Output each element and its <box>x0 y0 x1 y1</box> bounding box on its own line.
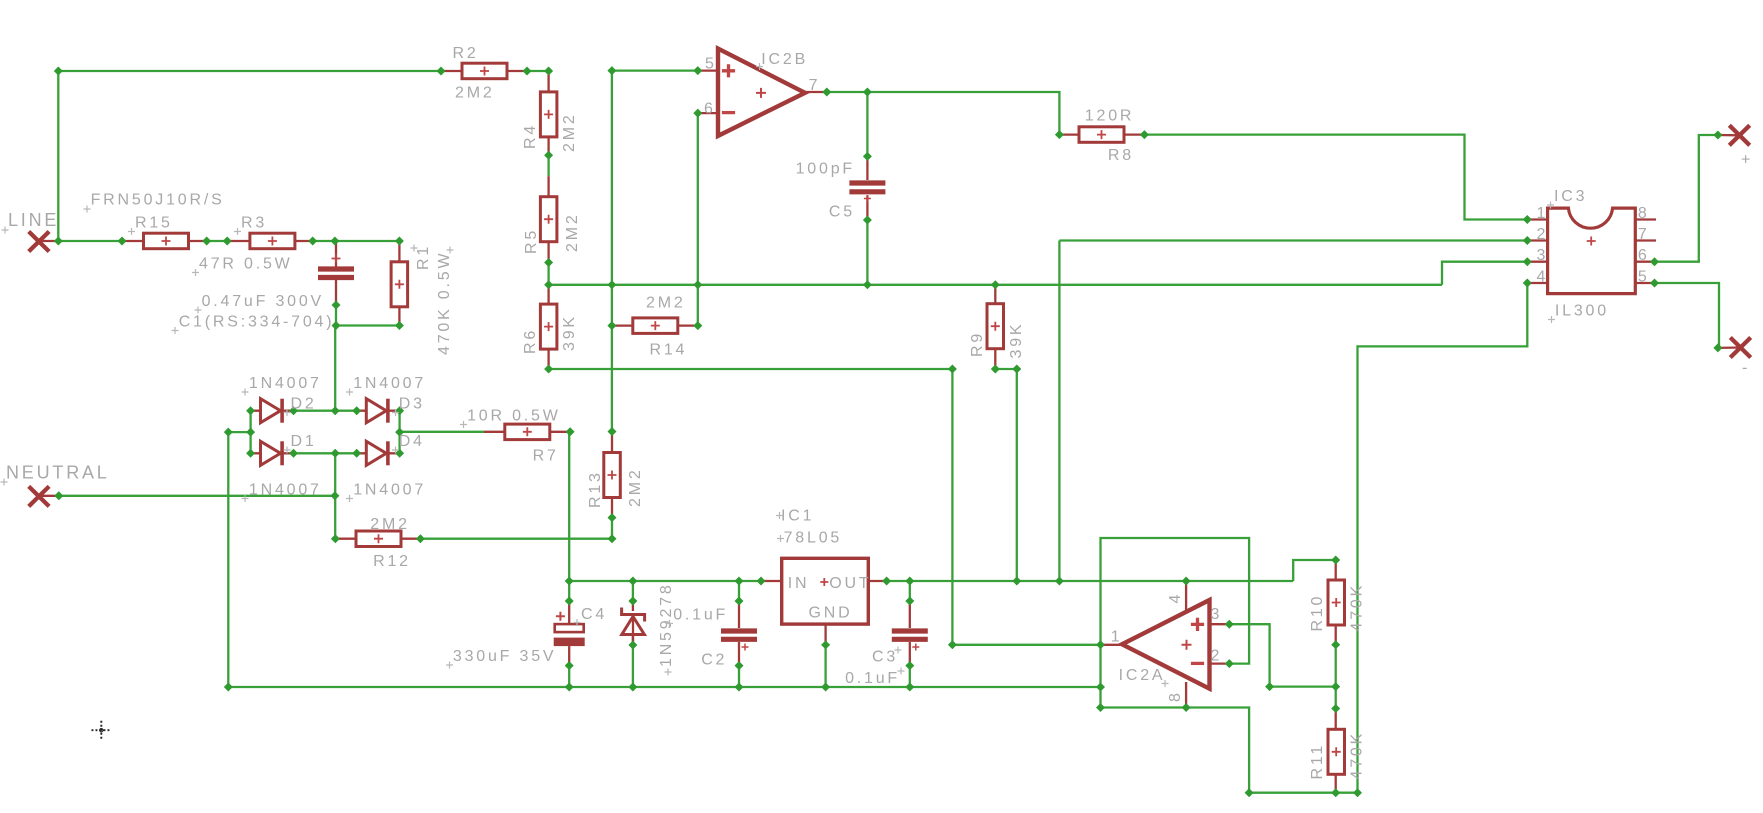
wire rail to R10 <box>1293 560 1336 581</box>
resistor R1 <box>391 262 408 307</box>
wire R4 to R5 <box>547 155 549 176</box>
svg-text:5: 5 <box>1638 269 1650 286</box>
svg-text:NEUTRAL: NEUTRAL <box>6 463 110 483</box>
wire C5 to mid rail <box>866 220 868 285</box>
wire C4 bottom stub <box>568 666 570 687</box>
wire IC2B out to R8 <box>827 92 1060 135</box>
wire C2 bottom stub <box>738 666 740 687</box>
leads zener D5 <box>632 601 634 611</box>
terminal plus X <box>1729 125 1749 145</box>
leads 78L05 <box>761 580 782 582</box>
svg-text:R13: R13 <box>587 470 604 508</box>
leads R6 <box>547 285 549 305</box>
svg-text:3: 3 <box>1537 247 1549 264</box>
leads R5 <box>547 176 549 197</box>
leads C4 <box>568 601 570 624</box>
svg-text:0.1uF: 0.1uF <box>845 670 900 687</box>
resistor R14 <box>633 318 678 334</box>
svg-text:2M2: 2M2 <box>370 516 410 533</box>
wire R10 bottom <box>1335 645 1337 687</box>
svg-text:2: 2 <box>1537 226 1549 243</box>
wire IC3 pin2 riser <box>1058 241 1060 582</box>
lead plus terminal <box>1718 134 1740 137</box>
svg-text:39K: 39K <box>561 314 578 351</box>
wire R15 to R3 <box>207 240 228 242</box>
leads C3 <box>909 601 911 628</box>
zener diode D5 1N59278 <box>622 608 645 646</box>
svg-text:2M2: 2M2 <box>455 85 495 102</box>
wire node to mid rail <box>549 284 612 286</box>
svg-text:7: 7 <box>1638 226 1650 243</box>
svg-text:C1(RS:334-704): C1(RS:334-704) <box>179 314 335 331</box>
svg-text:1N4007: 1N4007 <box>353 482 426 499</box>
wire bridge bottom to R12 <box>334 453 336 538</box>
wire R11 bottom to IC3 pin4 <box>1336 283 1528 793</box>
svg-text:IC1: IC1 <box>781 508 814 525</box>
resistor R4 <box>540 92 557 137</box>
voltage regulator IC1 78L05 <box>782 558 869 624</box>
svg-text:3: 3 <box>1211 606 1223 623</box>
diode D4 1N4007 <box>356 441 399 465</box>
svg-text:100pF: 100pF <box>796 161 855 178</box>
svg-text:2M2: 2M2 <box>561 112 578 152</box>
wire R5 to R6 node <box>547 263 549 285</box>
svg-text:R4: R4 <box>522 123 539 149</box>
wire ground rail <box>228 432 1100 687</box>
svg-text:LINE: LINE <box>8 210 59 230</box>
resistor R9 <box>987 304 1004 349</box>
op-amp IC2B <box>718 49 805 136</box>
wire R3 to node C1/R1 <box>313 240 400 242</box>
wire R12 to R13 node <box>420 538 612 540</box>
op-amp IC2A <box>1122 600 1210 689</box>
svg-text:120R: 120R <box>1085 108 1134 125</box>
lead minus terminal <box>1719 346 1741 349</box>
diode D3 1N4007 <box>356 399 399 423</box>
wire GND stub <box>824 645 826 687</box>
resistor R12 <box>356 531 401 547</box>
svg-text:FRN50J10R/S: FRN50J10R/S <box>91 192 225 209</box>
svg-text:10R 0.5W: 10R 0.5W <box>467 408 561 425</box>
svg-text:C2: C2 <box>701 652 727 669</box>
wire IC2B pin5 <box>612 69 698 71</box>
svg-text:D2: D2 <box>291 396 317 413</box>
wire R9 to +5 rail <box>995 369 1017 581</box>
svg-text:IC3: IC3 <box>1554 188 1587 205</box>
wire LINE riser <box>57 71 59 241</box>
svg-text:OUT: OUT <box>829 575 871 592</box>
capacitor C3 <box>892 631 928 651</box>
wire C1 to bottom node <box>335 305 337 326</box>
svg-text:R15: R15 <box>135 215 173 232</box>
capacitor C2 <box>721 631 757 651</box>
leads C2 <box>738 601 740 628</box>
resistor R6 <box>540 304 557 349</box>
wire out to C5 <box>866 92 868 156</box>
wire mid rail <box>612 284 1442 286</box>
terminal LINE X <box>29 232 49 252</box>
wire D1 to D4 <box>294 452 357 454</box>
leads R7 <box>484 431 505 433</box>
wire IC2A pin3 to divider <box>1229 624 1335 686</box>
svg-text:4: 4 <box>1537 269 1549 286</box>
svg-text:IL300: IL300 <box>1555 303 1609 320</box>
leads C5 <box>866 156 868 180</box>
svg-text:D3: D3 <box>399 396 425 413</box>
wire zener bottom stub <box>632 645 634 687</box>
svg-text:IC2A: IC2A <box>1119 667 1166 684</box>
svg-text:R8: R8 <box>1108 147 1134 164</box>
wire R2 to R4 <box>527 70 549 72</box>
leads R12 <box>335 538 355 540</box>
svg-text:1N59278: 1N59278 <box>658 582 675 667</box>
wire C3 bottom stub <box>909 666 911 687</box>
wire C4 top stub <box>568 581 570 601</box>
leads IC2B <box>698 69 718 71</box>
optocoupler IC3 IL300 <box>1548 208 1636 294</box>
svg-text:47R 0.5W: 47R 0.5W <box>199 256 293 273</box>
svg-text:GND: GND <box>809 605 853 622</box>
svg-text:R3: R3 <box>241 215 267 232</box>
wire D2 to D3 <box>294 410 357 412</box>
svg-text:5: 5 <box>705 56 717 73</box>
resistor R8 <box>1079 127 1124 143</box>
wire LINE top rail <box>58 70 441 72</box>
wire C1 bottom to R1 <box>335 324 399 326</box>
wire IC2A feedback loop <box>1101 538 1250 708</box>
leads R8 <box>1059 133 1079 135</box>
wire zener top stub <box>632 581 634 601</box>
stray origin cross bottom left <box>92 721 112 740</box>
svg-text:1N4007: 1N4007 <box>249 375 322 392</box>
resistor R2 <box>462 63 507 78</box>
terminal NEUTRAL X <box>29 486 49 506</box>
wire pin5 riser to R13 <box>611 285 613 432</box>
svg-text:1: 1 <box>1537 205 1549 222</box>
wire R7 riser <box>568 432 571 581</box>
wire IC3 pin5 to minus terminal <box>1655 283 1720 348</box>
svg-text:C4: C4 <box>581 606 607 623</box>
svg-text:R1: R1 <box>415 244 432 270</box>
svg-text:R14: R14 <box>650 342 688 359</box>
wire pin8 row to R11 bottom <box>1186 708 1336 793</box>
leads IC2A <box>1101 644 1123 646</box>
svg-text:39K: 39K <box>1008 322 1025 359</box>
leads R1 <box>398 241 400 262</box>
svg-text:IN: IN <box>788 575 810 592</box>
leads R4 <box>547 71 549 91</box>
svg-text:+: + <box>1741 152 1750 169</box>
diode D2 1N4007 <box>251 399 294 423</box>
svg-text:R7: R7 <box>533 448 559 465</box>
wire IC3 pin2 row <box>1059 239 1527 241</box>
leads R2 <box>441 70 462 72</box>
wire C3 top stub <box>909 581 911 601</box>
wire IN rail <box>569 580 761 582</box>
svg-text:D4: D4 <box>399 433 425 450</box>
svg-text:2: 2 <box>1211 648 1223 665</box>
svg-text:2M2: 2M2 <box>646 295 686 312</box>
wire to IC2A pin1 <box>952 644 1100 646</box>
svg-text:R12: R12 <box>373 553 411 570</box>
svg-text:7: 7 <box>809 77 821 94</box>
wire IC2B pin6 riser <box>697 113 699 326</box>
wire R13 to R12 row <box>611 518 613 539</box>
leads C1 <box>335 241 337 267</box>
wire pin5 riser <box>611 71 613 285</box>
svg-text:8: 8 <box>1167 690 1184 702</box>
leads R9 <box>994 285 996 304</box>
svg-text:470K: 470K <box>1349 731 1366 780</box>
wire C2 top stub <box>738 581 740 601</box>
wire bridge to R7 <box>400 431 484 433</box>
resistor R3 <box>250 233 295 249</box>
wire R8 to IC3 pin1 <box>1144 135 1527 220</box>
capacitor C5 <box>849 183 885 202</box>
svg-text:470K 0.5W: 470K 0.5W <box>436 251 453 355</box>
wire bridge left column <box>249 411 251 454</box>
svg-text:78L05: 78L05 <box>784 530 843 547</box>
svg-text:1N4007: 1N4007 <box>249 482 322 499</box>
resistor R5 <box>540 197 557 242</box>
wire NEUTRAL <box>59 495 335 497</box>
svg-text:470K: 470K <box>1349 583 1366 632</box>
svg-text:R5: R5 <box>523 228 540 254</box>
resistor R10 <box>1328 580 1345 625</box>
leads R3 <box>227 240 250 242</box>
capacitor C4 electrolytic <box>554 612 585 646</box>
svg-text:1: 1 <box>1111 629 1123 646</box>
wire LINE to R15 <box>58 240 122 242</box>
svg-text:1N4007: 1N4007 <box>353 375 426 392</box>
wire mid rail to IC3 pin3 <box>1442 262 1527 285</box>
svg-text:D1: D1 <box>291 433 317 450</box>
svg-text:R10: R10 <box>1309 594 1326 632</box>
svg-text:C3: C3 <box>872 649 898 666</box>
leads R14 <box>612 324 633 326</box>
wire C1 to bridge top <box>334 326 336 411</box>
wire divider to R11 <box>1335 687 1337 709</box>
svg-text:R11: R11 <box>1309 743 1326 780</box>
resistor R7 <box>505 424 550 440</box>
resistor R11 <box>1328 729 1345 774</box>
wire OUT rail <box>887 580 1294 582</box>
svg-text:0.1uF: 0.1uF <box>673 607 728 624</box>
diode D1 1N4007 <box>251 441 294 465</box>
wire IC3 pin6 to plus terminal <box>1655 135 1718 262</box>
resistor R13 <box>604 453 621 498</box>
resistor R15 <box>144 233 189 249</box>
lead NEUTRAL terminal <box>40 495 59 497</box>
svg-text:IC2B: IC2B <box>761 51 808 68</box>
svg-text:-: - <box>1742 360 1747 377</box>
wire bridge right column <box>398 411 400 454</box>
svg-text:R9: R9 <box>969 331 986 357</box>
terminal minus X <box>1730 338 1750 358</box>
svg-text:8: 8 <box>1638 205 1650 222</box>
svg-text:6: 6 <box>704 101 716 118</box>
svg-text:2M2: 2M2 <box>564 212 581 252</box>
svg-text:330uF 35V: 330uF 35V <box>453 648 556 665</box>
leads IC3 right pins <box>1635 218 1656 220</box>
svg-text:R6: R6 <box>522 328 539 354</box>
svg-text:2M2: 2M2 <box>627 467 644 507</box>
svg-text:6: 6 <box>1638 247 1650 264</box>
leads R11 <box>1335 709 1337 731</box>
svg-text:0.47uF 300V: 0.47uF 300V <box>202 293 324 310</box>
leads R15 <box>122 240 144 242</box>
capacitor C1 <box>318 254 354 278</box>
leads R13 <box>611 432 613 453</box>
svg-text:R2: R2 <box>453 45 479 62</box>
svg-text:C5: C5 <box>829 204 855 221</box>
leads R10 <box>1335 560 1337 581</box>
wire R6 to IC2A pin1 <box>549 369 953 645</box>
lead LINE terminal <box>40 240 58 242</box>
leads IC3 left pins <box>1527 218 1547 220</box>
wire bridge left stub <box>228 431 250 433</box>
svg-text:4: 4 <box>1167 592 1184 604</box>
